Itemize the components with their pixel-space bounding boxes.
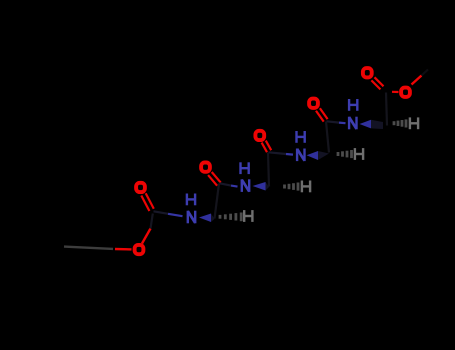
node stereo H on alpha C3 (gray): [302, 181, 310, 193]
wire: amide C8=O5 double bond line 1: [212, 172, 221, 183]
node O2: ester oxygen label: [401, 88, 410, 97]
wire: amide C6=O3 double bond line 1: [320, 108, 328, 119]
wire: amide C8 to N3 (dark carbon half): [220, 183, 232, 185]
wire: carbamate ester O to CH2 bond (red oxygen half): [115, 248, 132, 251]
wedge bond: N4 to alpha carbon C4 (solid blue wedge): [199, 214, 211, 223]
node O5: amide 3 carbonyl oxygen label: [201, 163, 210, 172]
wire: O2 to methyl carbon (red oxygen half): [412, 76, 422, 85]
wire: alpha C3 up to amide carbonyl C7 (dark): [268, 153, 269, 187]
node H4: N4 hydrogen label: [187, 194, 195, 206]
wire: amide C8=O5 double bond line 2: [208, 175, 217, 186]
wire: alpha C2 up to amide carbonyl C6 (dark): [326, 122, 329, 153]
node N4: carbamate nitrogen label: [188, 211, 195, 224]
node O3: amide 1 carbonyl oxygen label: [309, 99, 318, 108]
node H1: N1 hydrogen label: [349, 99, 357, 111]
wire: C6 to N1 (blue nitrogen half): [339, 121, 346, 124]
node N3: amide 3 nitrogen label: [242, 179, 249, 192]
wedge dark continuation to alpha C3: [266, 182, 270, 191]
hashed wedge: alpha C2 stereo H hash marks (gray): [338, 150, 352, 158]
node N2: amide 2 nitrogen label: [297, 149, 304, 162]
wire: methyl dark half: [422, 70, 429, 76]
wire: amide C7=O4 double bond line 1: [266, 141, 271, 151]
wire: alpha C1 up to ester carbonyl C5 (dark): [386, 93, 387, 126]
wire: ester C5=O1 double bond line 1: [375, 77, 384, 86]
node O1: ester carbonyl oxygen label: [363, 68, 372, 77]
node N1: amide 1 nitrogen label: [349, 117, 356, 130]
node stereo H on alpha C4 (gray): [244, 210, 252, 222]
hashed wedge: alpha C4 stereo H hash marks (gray): [220, 213, 241, 222]
wedge bond: N2 to alpha carbon C2 (solid blue wedge): [307, 151, 319, 160]
node stereo H on alpha C1 (gray): [410, 117, 418, 129]
wire: carbamate C9=O6 double bond line 1: [146, 193, 154, 209]
wire: C8 to N3 (blue nitrogen half): [231, 186, 238, 187]
wire: amide C6 to N1 (dark carbon half): [327, 121, 340, 122]
node H3: N3 hydrogen label: [241, 162, 249, 174]
wire: O7 up-right to carbamate carbon C9 (red half): [142, 229, 151, 244]
wire: carbamate C9=O6 double bond line 2: [141, 196, 149, 212]
wire: amide C7 to N2 (dark carbon half): [269, 152, 287, 154]
node H2: N2 hydrogen label: [297, 131, 305, 143]
wire: alpha C4 up to amide carbonyl C8 (dark): [215, 184, 220, 219]
wire: O7 to C9 dark carbon half: [151, 214, 153, 229]
hashed wedge: alpha C1 stereo H hash marks (gray): [394, 119, 406, 127]
node O6: carbamate carbonyl oxygen label: [136, 183, 145, 192]
node stereo H on alpha C2 (gray): [355, 148, 363, 160]
wire: carbamate C9 to N4 (dark carbon half): [154, 211, 169, 214]
node O7: carbamate ester oxygen label: [135, 245, 144, 254]
node O4: amide 2 carbonyl oxygen label: [255, 131, 264, 140]
hashed wedge: alpha C3 stereo H hash marks (gray): [285, 183, 299, 191]
wire: amide C7=O4 double bond line 2: [262, 143, 267, 153]
wedge dark continuation to alpha C2: [318, 151, 329, 160]
wedge dark continuation to alpha C4: [211, 214, 215, 223]
wire: benzyl CH2 to carbamate ester O bond (dark carbon half): [64, 247, 113, 249]
wire: ester C5=O1 double bond line 2: [371, 80, 380, 89]
wire: ester C5 to O2 (red tick): [392, 91, 399, 93]
wedge dark continuation to alpha C1: [371, 120, 383, 129]
wedge bond: N1 to alpha carbon C1 (solid blue wedge): [360, 120, 372, 129]
wire: amide C6=O3 double bond line 2: [316, 111, 324, 122]
wedge bond: N3 to alpha carbon C3 (solid blue wedge): [253, 182, 266, 191]
wire: C7 to N2 (blue nitrogen half): [286, 153, 293, 156]
wire: C9 to N4 (blue nitrogen half): [168, 214, 183, 216]
